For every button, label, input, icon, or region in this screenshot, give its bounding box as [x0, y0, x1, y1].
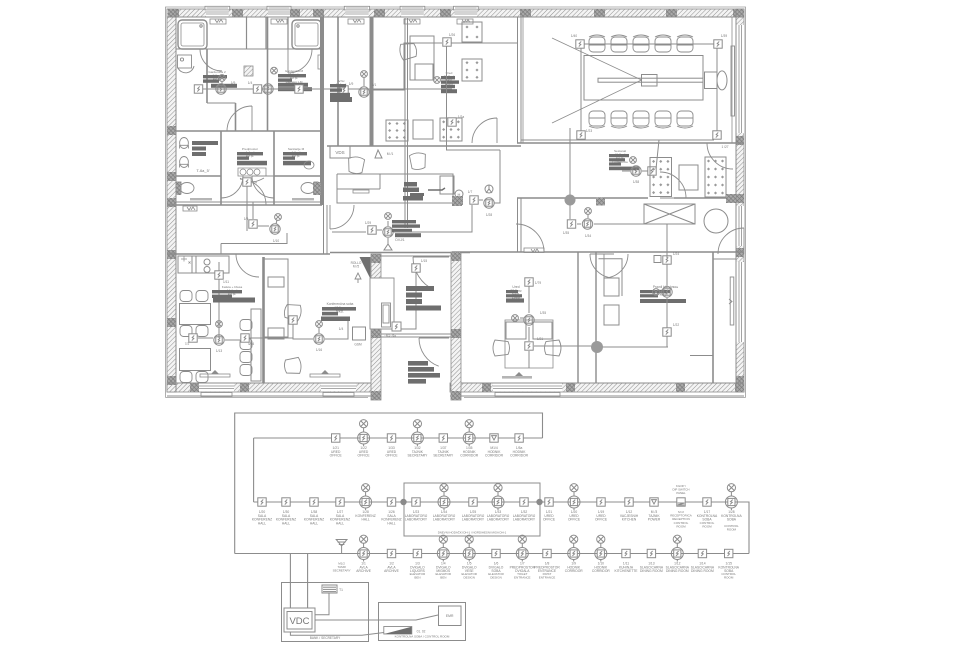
- wire schematic feed loop: [235, 413, 543, 554]
- wall lines reception-corridor: [518, 198, 522, 252]
- switch M1/5a: [392, 322, 401, 331]
- svg-text:1/29: 1/29: [365, 221, 371, 225]
- switch 1/23 row2: [412, 498, 420, 506]
- lamp outlet: [585, 208, 592, 215]
- junction row2 right: [536, 499, 542, 505]
- chair ured office: [399, 42, 418, 61]
- wire predprostor riser: [246, 186, 248, 231]
- switch 1/21 row2: [545, 498, 553, 506]
- wire drops to VDC: [290, 554, 307, 609]
- wire ured down to reception: [447, 118, 501, 150]
- chair conf bottom 663: [655, 111, 671, 128]
- lamp DW1: [383, 227, 393, 237]
- door predprostor upper: [227, 106, 252, 131]
- windows top wall: [205, 6, 478, 16]
- lamp 1/5 row3: [463, 535, 475, 561]
- lamp 1/12 row3: [671, 535, 683, 561]
- wall piers: [167, 9, 744, 392]
- chair conf top 685: [677, 35, 693, 52]
- hatch block corridor 2: [596, 198, 605, 206]
- wire conference loop: [581, 44, 717, 131]
- wire ured to conference wall: [451, 42, 518, 44]
- outer wall bottom run2: [450, 383, 744, 392]
- wall lamp W/1: [375, 150, 382, 158]
- svg-text:1/2a: 1/2a: [458, 115, 464, 119]
- svg-text:1/35: 1/35: [540, 311, 546, 315]
- cabinet dotted right2: [705, 157, 726, 197]
- switch 1/33 row1: [387, 434, 395, 442]
- Y drop symbol: [384, 244, 392, 250]
- switch 1/35c: [567, 220, 575, 228]
- chair ured22 left: [493, 340, 510, 356]
- svg-text:1/9: 1/9: [349, 82, 354, 86]
- label bars vestibule list 2: [408, 361, 440, 384]
- wall face lines: [167, 9, 744, 396]
- lamp pravna: [662, 287, 672, 297]
- wire vestibule: [396, 272, 416, 329]
- svg-text:1/13: 1/13: [216, 349, 222, 353]
- wire lighting top rooms: [198, 88, 452, 90]
- svg-text:1 /27: 1 /27: [721, 145, 728, 149]
- switch 1/4: [243, 178, 251, 186]
- switch 1/6 row3: [492, 549, 500, 557]
- wire meeting room: [293, 321, 348, 339]
- washbasin: [180, 157, 189, 168]
- outlet garderoba M: [271, 67, 278, 74]
- door sestanek: [660, 172, 686, 198]
- switch 1/17 row2: [703, 498, 711, 506]
- lamp outlet: [316, 321, 323, 328]
- svg-text:EMR: EMR: [446, 614, 454, 618]
- kitchen sink taps: [181, 257, 191, 264]
- meeting counter table: [264, 259, 288, 339]
- chair conf top 619: [611, 35, 627, 52]
- switch 1/15 row3: [725, 549, 733, 557]
- GSM box: [353, 327, 366, 340]
- switch 1/27 row2: [336, 498, 344, 506]
- switch 1/38 row2: [310, 498, 318, 506]
- svg-text:1/4: 1/4: [248, 81, 253, 85]
- meeting floor strip: [310, 374, 340, 377]
- svg-text:1/9: 1/9: [231, 81, 236, 85]
- wire conference bottom bus: [521, 139, 714, 141]
- lamp 1/35 row1: [463, 420, 475, 446]
- closet niche pravna: [599, 259, 623, 296]
- wire node up: [569, 128, 571, 195]
- switch 1/39: [714, 40, 722, 48]
- floor strips left bottom: [190, 198, 314, 200]
- svg-text:1/34: 1/34: [585, 234, 591, 238]
- switch 1/2 row3: [387, 549, 395, 557]
- lamp 1/7 row3: [516, 535, 528, 561]
- door wash: [221, 176, 243, 198]
- hatch block corridor: [453, 196, 463, 205]
- switch 1/25 row2: [469, 498, 477, 506]
- switch 1/11 row3: [622, 549, 630, 557]
- shower stall 1: [178, 20, 207, 49]
- vent marker corridor: [524, 248, 544, 253]
- wire bus row3: [235, 553, 749, 555]
- lamp 1/28 row2: [360, 484, 372, 510]
- windows bottom wall: [199, 384, 562, 397]
- lamp outlet: [216, 321, 223, 328]
- cabinet dotted ured wall2: [462, 59, 482, 81]
- wire drop row1-row2: [253, 438, 255, 502]
- switch 1/8 row3: [543, 549, 551, 557]
- switch 1/22: [663, 328, 671, 336]
- lamp 1/10 row3: [595, 535, 607, 561]
- switch M/3 row2: [650, 498, 658, 506]
- door office bottom3: [604, 254, 628, 278]
- lamp outlet: [653, 289, 660, 296]
- exterior contour line: [166, 7, 746, 398]
- svg-text:/3a: /3a: [674, 285, 679, 289]
- hatch block corridor 3: [726, 194, 736, 203]
- toilet: [301, 182, 318, 194]
- outer wall right: [736, 9, 744, 392]
- windows right wall: [736, 25, 744, 342]
- none2: [480, 142, 482, 144]
- wire corridor right: [570, 205, 667, 224]
- svg-text:4/34: 4/34: [248, 342, 254, 346]
- projection sight lines: [552, 38, 642, 123]
- lamp 1/22 row1: [358, 420, 370, 446]
- chair meeting 1: [283, 303, 302, 322]
- label bars kitchen: [212, 290, 242, 298]
- switch M1/4 row1: [490, 434, 498, 442]
- svg-text:1/23: 1/23: [586, 129, 592, 133]
- label bars meeting: [322, 307, 356, 315]
- svg-text:01. 02: 01. 02: [417, 630, 426, 634]
- reception small shelf: [353, 190, 369, 193]
- wire ured22: [520, 286, 529, 368]
- door garderobaM: [288, 49, 312, 73]
- outlet above garderoba2: [219, 75, 226, 82]
- wire bottom right bus: [534, 346, 668, 347]
- switch 1/26 row2: [387, 498, 395, 506]
- kitchen chairs: [180, 291, 208, 383]
- outer wall left: [167, 9, 176, 392]
- svg-text:BANK / SECRETARY: BANK / SECRETARY: [310, 636, 341, 640]
- label bars ured22: [506, 290, 524, 303]
- ured office desk: [410, 36, 434, 80]
- lamp 1/9 row3: [568, 535, 580, 561]
- lamp 1/32 row1: [411, 420, 423, 446]
- VDC cabinet box: [282, 583, 369, 642]
- label bars garderobaM: [278, 74, 312, 91]
- door office bottom1: [516, 224, 544, 252]
- svg-text:1/10: 1/10: [273, 239, 279, 243]
- svg-text:1/79: 1/79: [535, 281, 541, 285]
- label bars sanitarijeM: [283, 152, 311, 165]
- door vestibule top: [413, 257, 449, 290]
- VDC unit: [284, 608, 315, 632]
- lamp garderoba2 1/8: [216, 84, 226, 94]
- switch 1/37 row1: [439, 434, 447, 442]
- door corridor 1: [330, 205, 354, 229]
- lamp meeting 1/16: [314, 334, 324, 344]
- vestibule wall right: [451, 252, 461, 400]
- chair ured22 right: [545, 340, 562, 356]
- svg-text:M /1: M /1: [387, 152, 394, 156]
- lamp 1/10: [270, 224, 280, 234]
- control room box: [379, 603, 466, 641]
- lamp 1/4 row3: [437, 535, 449, 561]
- EMR box: [439, 606, 462, 626]
- svg-text:1/9: 1/9: [244, 217, 249, 221]
- door vestibule lower: [419, 338, 449, 366]
- lamp 1/1 row3: [358, 535, 370, 561]
- wire T1 to vdc: [315, 593, 329, 615]
- chair conf top 597: [589, 35, 605, 52]
- switch 1/15: [412, 264, 420, 272]
- switch 1/19 row2: [597, 498, 605, 506]
- sink row predprostor: [238, 168, 266, 182]
- shower stall 2: [292, 20, 321, 49]
- wire arhiv to ured: [370, 43, 442, 90]
- radiator marks left rooms: [244, 55, 322, 76]
- svg-text:VDC: VDC: [289, 616, 309, 627]
- window vent markers: [210, 19, 473, 24]
- wire bus row2: [254, 502, 749, 554]
- switch 1/20 row2: [258, 498, 266, 506]
- svg-text:DNEVNI HODAČKI DH-1 / NORDIHE: DNEVNI HODAČKI DH-1 / NORDIHESNI MIGA DH…: [438, 530, 507, 535]
- switch 4/34: [241, 334, 249, 342]
- kitchen tables: [180, 304, 211, 371]
- svg-text:1/26: 1/26: [449, 33, 455, 37]
- switch 1/79: [525, 278, 533, 286]
- svg-text:1/11: 1/11: [223, 280, 229, 284]
- lamp 1/28r: [484, 198, 494, 208]
- closet walls between garderoba rooms: [247, 17, 289, 49]
- svg-text:1/24: 1/24: [673, 252, 679, 256]
- switch 1/32 row2: [520, 498, 528, 506]
- svg-text:KONTROLNA SOBA / CONTROL ROO: KONTROLNA SOBA / CONTROL ROOM: [395, 635, 450, 639]
- svg-text:VDS: VDS: [335, 150, 344, 155]
- kitchen counter: [178, 256, 229, 273]
- switch arhiv: [340, 86, 348, 94]
- switch garderobaM: [253, 85, 261, 93]
- sliding screen right room: [729, 277, 734, 325]
- reception monitor: [440, 176, 454, 194]
- outer wall top: [167, 9, 744, 17]
- right room walls: [690, 259, 736, 356]
- switch meeting 1/4m: [289, 316, 297, 324]
- switch garderoba2: [194, 85, 202, 93]
- label bars arhiv2: [330, 97, 352, 102]
- washbasin: [180, 138, 189, 149]
- svg-text:−M1−/5a: −M1−/5a: [384, 334, 396, 338]
- door ured east: [472, 118, 497, 143]
- svg-text:1/40: 1/40: [571, 34, 577, 38]
- wire vdc to emr: [315, 615, 438, 620]
- wire vdc to wedge: [290, 632, 383, 635]
- door right room: [718, 228, 744, 254]
- lamp 1/13: [214, 335, 224, 345]
- svg-text:1/7: 1/7: [468, 190, 473, 194]
- circle Y symbol: [485, 185, 493, 193]
- outlet sestanek: [630, 157, 637, 164]
- lamp outlet: [385, 213, 392, 220]
- kitchen label bar: [213, 298, 255, 303]
- wedge: [384, 627, 412, 635]
- kitchen floor strip: [200, 374, 230, 377]
- label bars sestanek: [609, 154, 639, 170]
- svg-text:7/2: 7/2: [185, 342, 190, 346]
- kitchen bar counter: [251, 309, 261, 381]
- switch 1/27b: [713, 131, 721, 139]
- label bars ured top: [441, 76, 459, 93]
- junction row2 left: [400, 499, 406, 505]
- T1 transformer: [322, 585, 337, 593]
- switch 1/21 row1: [332, 434, 340, 442]
- switch 1/12 row2: [625, 498, 633, 506]
- lamp 1/34 row2: [438, 484, 450, 510]
- wire kitchen run: [198, 338, 293, 340]
- wire kitchen switch: [218, 262, 220, 338]
- lamp outlet: [275, 214, 282, 221]
- interior walls: [167, 17, 744, 383]
- switch kitchen 1/11: [215, 271, 223, 279]
- switch sestanek: [648, 167, 656, 175]
- door predprostor: [240, 179, 266, 205]
- chair conf bottom 685: [677, 111, 693, 128]
- svg-text:T1: T1: [339, 588, 343, 592]
- switch 1/24: [663, 256, 671, 264]
- door kitchen: [236, 254, 259, 277]
- label bars washroom: [192, 141, 218, 156]
- chair conf top 641: [633, 35, 649, 52]
- switch 1/21b: [525, 342, 533, 350]
- lamp 1/34c: [582, 219, 592, 229]
- vestibule niche: [370, 278, 394, 329]
- lamp 1/18 row2: [725, 484, 737, 510]
- svg-text:1/15: 1/15: [421, 259, 427, 263]
- svg-text:1/39: 1/39: [721, 34, 727, 38]
- chair conf bottom 597: [589, 111, 605, 128]
- svg-text:1/28: 1/28: [486, 213, 492, 217]
- wire riser pair: [405, 18, 408, 228]
- toilet: [177, 182, 194, 194]
- none: [166, 253, 168, 255]
- kitchen bar chairs: [240, 320, 252, 376]
- label bars garderoba2: [203, 75, 237, 88]
- svg-text:1/4: 1/4: [339, 327, 344, 331]
- laboratory group box: [404, 483, 540, 536]
- wire dw1 down: [387, 238, 389, 244]
- junction node 2: [591, 341, 603, 353]
- switch 1/2a: [448, 118, 456, 126]
- switch 7/2: [189, 334, 197, 342]
- meeting label bar: [321, 317, 350, 322]
- desks ured22: [505, 320, 553, 368]
- junction node circle: [565, 195, 576, 206]
- switch 1/14 row3: [698, 549, 706, 557]
- chair conf top 663: [655, 35, 671, 52]
- label bars DW/1: [392, 220, 421, 237]
- door garderoba2: [200, 49, 222, 71]
- door wcM: [252, 176, 274, 198]
- wire pravna: [660, 224, 667, 347]
- svg-text:1/1: 1/1: [372, 83, 377, 87]
- corridor vent marker: [183, 206, 197, 211]
- wire corridor left: [221, 202, 287, 254]
- door office bottom2: [590, 254, 614, 278]
- reception counter: [337, 174, 453, 203]
- chair conf bottom 619: [611, 111, 627, 128]
- wire sestanek: [622, 140, 659, 171]
- switch 1/13 row3: [647, 549, 655, 557]
- switch 1/7r: [470, 196, 478, 204]
- svg-text:1/38: 1/38: [633, 180, 639, 184]
- vestibule wall left: [371, 254, 381, 400]
- outlet ured: [434, 77, 441, 84]
- lamp arhiv 1/1: [359, 87, 369, 97]
- conference room window wall detail: [523, 17, 732, 143]
- switch ured 1/6: [443, 38, 451, 46]
- lamp outlet: [512, 315, 519, 322]
- label bars pravna: [640, 290, 670, 297]
- lamp 1/35b: [524, 315, 534, 325]
- antenna M1/2: [336, 540, 347, 554]
- crossed box hvac: [644, 204, 695, 224]
- wire ured vertical: [446, 46, 448, 118]
- lamp garderobaM: [263, 84, 273, 94]
- svg-text:1/4: 1/4: [252, 181, 257, 185]
- lamp sestanek 1/38: [631, 166, 641, 176]
- svg-text:1/35: 1/35: [563, 231, 569, 235]
- wire bus row1: [254, 437, 543, 439]
- switch 1/29: [368, 226, 376, 234]
- outer wall bottom run1: [167, 383, 380, 392]
- svg-text:T-6a_5': T-6a_5': [196, 168, 209, 173]
- switch 1/40: [576, 40, 584, 48]
- pravna sluzba room: [654, 256, 661, 263]
- svg-text:1/16: 1/16: [316, 348, 322, 352]
- chair reception 2: [409, 152, 426, 170]
- lamp outlet: [361, 71, 368, 78]
- chair meeting 2: [284, 357, 302, 374]
- switch 1/9: [249, 220, 257, 228]
- dark wedge rollo: [360, 257, 371, 279]
- vestibule wall piers: [371, 252, 461, 400]
- cabinet dotted ured mid: [440, 118, 462, 141]
- label bars predprostor: [237, 152, 267, 165]
- switch 1/30 row2: [282, 498, 290, 506]
- label bars arhiv: [330, 84, 350, 97]
- cabinet dotted ured wall1: [462, 22, 482, 42]
- label bars vestibule list: [406, 286, 441, 311]
- wire reception low: [332, 205, 472, 232]
- wire reception right: [479, 150, 500, 203]
- svg-text:1/22: 1/22: [673, 323, 679, 327]
- switch 1/3 row3: [413, 549, 421, 557]
- lamp 1/20 row2: [568, 484, 580, 510]
- VDS box: [330, 146, 350, 158]
- switch garderobaM 2: [295, 85, 303, 93]
- switch 1/23b: [577, 131, 585, 139]
- rollo drop symbol: [355, 273, 361, 283]
- switch 1/5a row1: [515, 434, 523, 442]
- label bars reception desk: [403, 182, 424, 201]
- chair reception 1: [347, 156, 364, 174]
- presenter station: [705, 71, 728, 90]
- conference table: [584, 56, 703, 101]
- lamp 1/33 row2: [492, 484, 504, 510]
- vestibule mid wall: [371, 334, 461, 337]
- svg-text:GSM: GSM: [354, 343, 362, 347]
- cabinet dotted ured left: [386, 120, 408, 141]
